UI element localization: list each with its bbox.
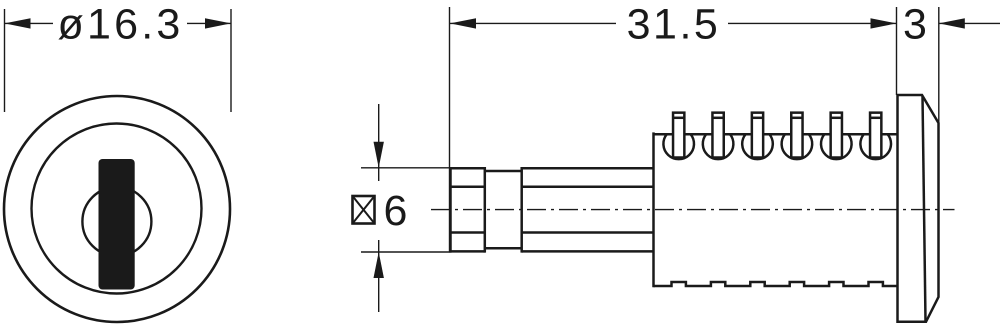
pin 4 stem xyxy=(791,113,802,158)
dimension square-6 extension line top xyxy=(361,167,450,169)
square symbol diagonal 2 xyxy=(353,196,375,224)
dimension square-6 line bottom segment xyxy=(378,240,380,312)
pin 6 chamber arc xyxy=(860,134,891,159)
shoulder line between groove B and shaft C xyxy=(520,167,523,253)
pin 1 cap line xyxy=(673,117,684,120)
shaft section C bottom edge xyxy=(522,250,654,253)
shaft section A inner line upper xyxy=(451,185,485,188)
core circle (plug front view) xyxy=(82,187,151,256)
cylinder body top edge xyxy=(654,133,898,136)
pin 4 chamber arc xyxy=(782,134,813,159)
dimension 31.5 line left segment xyxy=(450,22,617,24)
pin 5 cap line xyxy=(831,117,842,120)
flange chamfer edge line xyxy=(923,96,926,321)
shaft section A top edge xyxy=(451,167,485,170)
dimension ø16.3 arrow right xyxy=(205,18,231,28)
pin 2 chamber arc xyxy=(703,134,734,159)
shaft section A inner line lower xyxy=(451,231,485,234)
keyhole (key slot, filled) xyxy=(99,159,135,290)
svg-text:31.5: 31.5 xyxy=(627,1,721,49)
shaft section C inner line upper xyxy=(522,185,654,188)
pin 5 stem xyxy=(831,113,842,158)
shaft section A bottom edge xyxy=(451,250,485,253)
svg-text:ø16.3: ø16.3 xyxy=(58,1,184,49)
dimension 31.5 extension line left xyxy=(449,7,451,252)
dimension 3 arrow right (outside, pointing left) xyxy=(939,18,965,28)
pin 5 chamber arc xyxy=(821,134,852,159)
groove B bottom edge xyxy=(485,247,522,250)
dimension ø16.3 arrow left xyxy=(5,18,31,28)
svg-text:6: 6 xyxy=(384,187,408,235)
dimension 3 arrow right tail xyxy=(939,22,1000,24)
centerline (dash-dot axis) xyxy=(431,209,955,211)
dimension square-6 line top segment xyxy=(378,104,380,181)
shoulder line between section A and groove B xyxy=(484,167,487,253)
inner circle (cylinder body front view) xyxy=(32,124,202,294)
square symbol diagonal 1 xyxy=(353,196,375,224)
dimension ø16.3 line right segment xyxy=(187,22,231,24)
groove B top edge xyxy=(485,170,522,173)
pin 3 stem xyxy=(752,113,763,158)
pin 6 stem xyxy=(870,113,881,158)
dimension ø16.3 line left segment xyxy=(5,22,54,24)
dimension 31.5 arrow left xyxy=(450,18,476,28)
dimension 31.5 line right segment xyxy=(728,22,897,24)
pin 1 chamber arc xyxy=(663,134,694,159)
cylinder body bottom edge with teeth xyxy=(654,282,898,286)
dimension 3 extension line left (also 31.5 right) xyxy=(896,7,898,95)
pin 6 cap line xyxy=(870,117,881,120)
dimension 3 extension line right xyxy=(938,7,940,123)
shaft section C inner line lower xyxy=(522,231,654,234)
pin 2 cap line xyxy=(712,117,723,120)
svg-text:3: 3 xyxy=(903,1,927,49)
shaft section C top edge xyxy=(522,167,654,170)
pin 2 stem xyxy=(712,113,723,158)
pin 3 chamber arc xyxy=(742,134,773,159)
pin 1 stem xyxy=(673,113,684,158)
dimension square-6 arrow up xyxy=(374,252,384,278)
pin 3 cap line xyxy=(752,117,763,120)
dimension 31.5 / 3 shared arrow pointing right xyxy=(871,18,897,28)
dimension square-6 arrow down xyxy=(374,142,384,168)
outer circle (cylinder face front view) xyxy=(4,96,230,322)
dimension ø16.3 extension line right xyxy=(230,9,232,112)
dimension square-6 extension line bottom xyxy=(361,251,451,253)
flange outline (head of cylinder, side view) xyxy=(898,95,939,322)
pin 4 cap line xyxy=(791,117,802,120)
square symbol box xyxy=(353,196,375,224)
dimension ø16.3 extension line left xyxy=(4,9,6,112)
shaft section A left end face xyxy=(449,167,452,253)
cylinder body left face xyxy=(652,132,655,287)
